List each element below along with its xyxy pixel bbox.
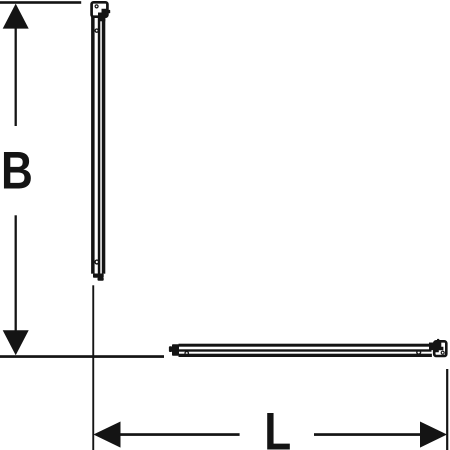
dimension line B lower segment [15,215,17,330]
extension line left (L datum left) [92,285,94,450]
horizontal rail: head screw hole [441,351,444,354]
vertical rail: upper hole [95,29,98,32]
vertical rail: left edge [91,17,95,274]
horizontal rail: top edge [179,344,432,347]
dimension line L right segment [314,433,421,436]
horizontal rail: bottom edge [179,354,432,357]
vertical rail: mounting head outline [92,2,108,16]
horizontal rail: middle edge [179,349,432,351]
dimension line B upper segment [15,27,17,126]
horizontal rail: rail-to-head connector [429,343,436,351]
arrowhead L left [93,422,120,448]
arrowhead L right [420,422,447,448]
vertical rail: head side nub [108,10,110,13]
vertical rail: head step block [98,9,106,16]
horizontal rail: mounting head outline [434,341,446,356]
svg-text:L: L [264,403,291,450]
extension line bottom (B datum bottom) [0,355,164,358]
extension line right (L datum right) [446,369,448,450]
vertical rail: bottom end nub [98,277,104,280]
vertical rail: bottom end cap [93,274,104,278]
vertical rail: middle edge [98,18,101,274]
arrowhead B top [3,4,29,29]
horizontal rail: left end cap [172,344,179,355]
horizontal rail: left hole [185,352,188,355]
extension line top (B datum top) [0,1,81,4]
arrowhead B bottom [3,330,29,355]
vertical rail: head screw hole [95,5,98,8]
dimension line L left segment [119,433,240,436]
svg-text:B: B [1,142,33,200]
vertical rail: right edge [102,17,106,274]
vertical rail: lower hole [95,260,99,264]
horizontal rail: left end nub [169,346,172,352]
vertical rail: head-to-rail connector [98,16,105,22]
horizontal rail: right hole [417,350,421,354]
horizontal rail: head top nub [437,339,439,341]
horizontal rail: head step block [435,342,443,352]
